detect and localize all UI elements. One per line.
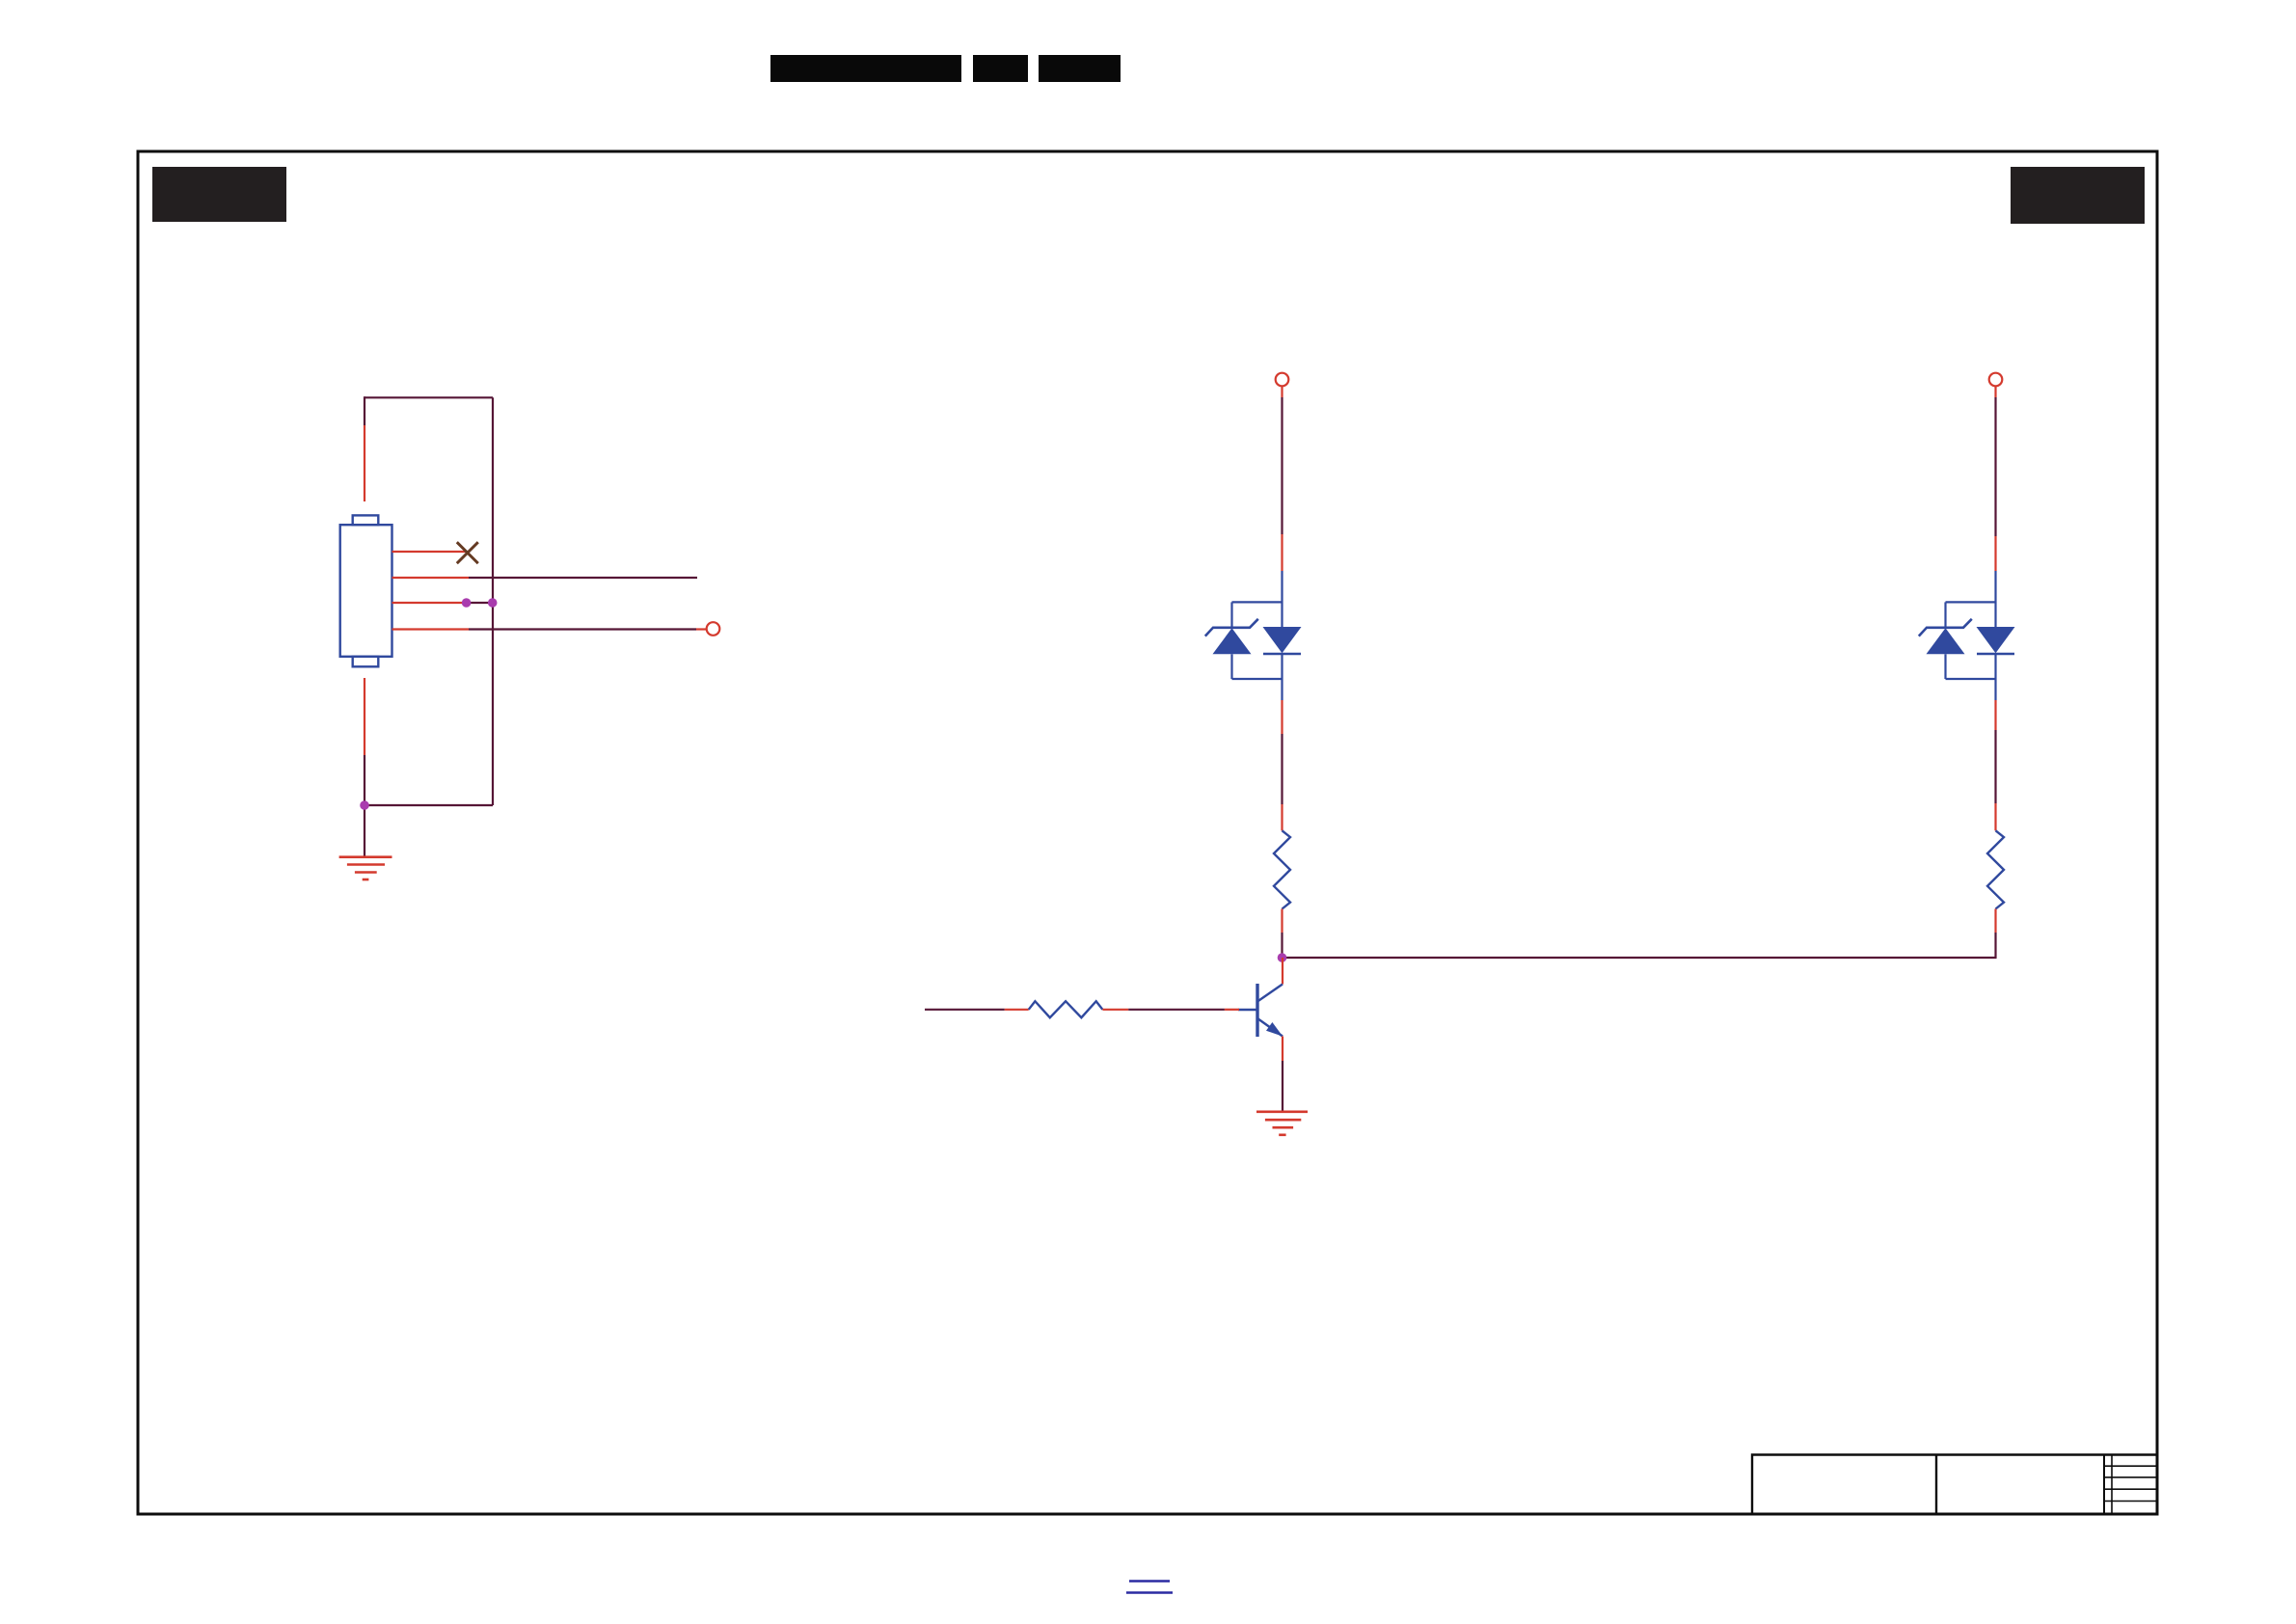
- node: collector net horizontal wire: [1283, 957, 1997, 959]
- redacted label box top-left: [152, 167, 286, 222]
- wire: D2 anode stub (red): [1994, 536, 1996, 571]
- wire: emitter stub (red): [1282, 1037, 1283, 1062]
- wire: pin 3 net (maroon): [469, 577, 697, 579]
- wire: R2 left stub (red): [1005, 1009, 1029, 1011]
- wire: R3 to node corner (maroon): [1994, 933, 1996, 959]
- wire: R3 bottom stub (red): [1994, 909, 1996, 934]
- wire: R3 top stub (red): [1994, 803, 1996, 830]
- wire: D2 cathode stub (red): [1994, 700, 1996, 730]
- resistor R3: [1987, 830, 2004, 908]
- wire: collector stub (red): [1282, 958, 1283, 985]
- TVS diode D1 (bidirectional): [1205, 571, 1302, 700]
- junction dot on pin 4 right: [488, 598, 498, 608]
- sheet border frame: [138, 151, 2157, 1514]
- wire: D1 to R1 (maroon): [1281, 734, 1283, 804]
- redacted label box top-right: [2011, 167, 2145, 224]
- wire: loop bottom horizontal: [365, 804, 493, 806]
- wire: connector bottom lead (maroon) to ground: [364, 755, 365, 857]
- redacted title bar 1: [770, 55, 961, 82]
- wire: R2 to base (maroon): [1128, 1009, 1225, 1011]
- wire: connector pin 1 top lead (red part): [364, 425, 365, 501]
- junction dot at collector node: [1278, 953, 1287, 962]
- wire: R1 bottom stub (red): [1281, 909, 1283, 934]
- wire: connector pin 1 top lead (maroon part): [364, 396, 365, 425]
- ground symbol GND (emitter): [1256, 1112, 1308, 1135]
- wire: R1 top stub (red): [1281, 804, 1283, 830]
- junction dot at loop return: [360, 800, 369, 810]
- junction dot on pin 4 left: [462, 598, 472, 608]
- wire: pin 4 stub (red): [392, 602, 467, 604]
- wire: pin 4 short maroon jumper: [467, 602, 493, 604]
- ground symbol GND (left): [339, 857, 392, 880]
- no-connect X on pin 2: [457, 542, 478, 563]
- open terminal circle on pin 5 net: [707, 622, 720, 636]
- TVS diode D2 (bidirectional): [1919, 571, 2015, 700]
- wire: base net start (maroon): [925, 1009, 1005, 1011]
- wire: feedback loop top horizontal: [365, 396, 493, 398]
- wire: D2 to R3 (maroon): [1994, 730, 1996, 803]
- wire: D1 anode stub (red): [1281, 534, 1283, 571]
- wire: loop right vertical: [492, 397, 494, 805]
- redacted title bar 3: [1039, 55, 1121, 82]
- wire: T2 net (maroon): [1994, 397, 1996, 536]
- connector CN1 body: [340, 515, 392, 666]
- wire: connector bottom lead (red): [364, 678, 365, 755]
- wire: R2 right stub (red): [1102, 1009, 1128, 1011]
- transistor Q1 (NPN): [1238, 984, 1283, 1037]
- resistor R1: [1274, 830, 1290, 908]
- title block: [1752, 1455, 2157, 1515]
- wire: pin 5 stub (red): [392, 628, 470, 630]
- wire: T2 stub (red): [1994, 387, 1996, 397]
- open terminal circle T1: [1276, 373, 1289, 387]
- wire: R1 to node (maroon): [1281, 933, 1283, 958]
- open terminal circle T2: [1989, 373, 2003, 387]
- wire: base stub (red): [1225, 1009, 1239, 1011]
- wire: pin 5 net (maroon): [469, 628, 696, 630]
- wire: pin 3 stub (red): [392, 577, 470, 579]
- resistor R2: [1029, 1001, 1103, 1017]
- footer page link underline 2: [1126, 1591, 1173, 1593]
- wire: T1 net (maroon): [1281, 397, 1283, 534]
- wire: pin 5 terminal stub (red): [696, 628, 707, 630]
- wire: emitter to ground (maroon): [1282, 1061, 1283, 1112]
- redacted title bar 2: [973, 55, 1028, 82]
- wire: T1 stub (red): [1281, 387, 1283, 397]
- footer page link underline 1: [1129, 1580, 1170, 1582]
- wire: D1 cathode stub (red): [1281, 700, 1283, 734]
- wire: pin 2 stub (red): [392, 551, 468, 553]
